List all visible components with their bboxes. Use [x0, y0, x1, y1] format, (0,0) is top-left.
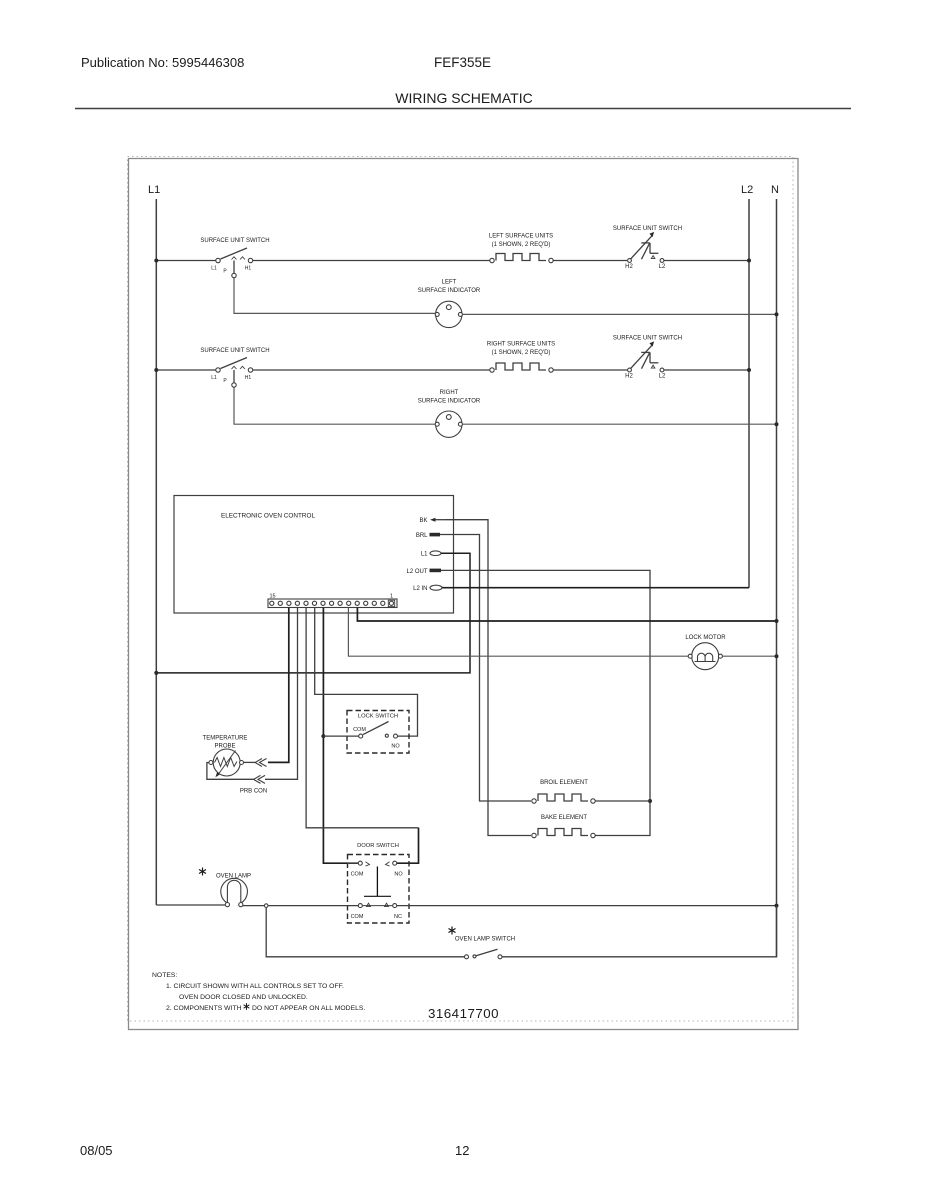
svg-text:DO NOT APPEAR ON ALL MODELS.: DO NOT APPEAR ON ALL MODELS.: [252, 1005, 365, 1012]
svg-text:L1: L1: [211, 375, 217, 381]
drawing frame dotted border: [128, 157, 794, 1022]
svg-text:H1: H1: [245, 266, 252, 272]
svg-text:L2: L2: [741, 184, 753, 196]
wire terminal pin11 to door switch NO: [306, 608, 418, 828]
wire terminal pin6 to lock motor: [348, 608, 688, 657]
svg-text:BRL: BRL: [416, 533, 428, 539]
notes block: [152, 972, 365, 1012]
switch S2 surface unit switch thermal contact row1: [613, 226, 682, 270]
svg-text:BK: BK: [419, 518, 427, 524]
svg-text:RIGHT: RIGHT: [440, 390, 459, 396]
svg-text:BROIL ELEMENT: BROIL ELEMENT: [540, 780, 588, 786]
svg-text:1. CIRCUIT SHOWN WITH ALL CON: 1. CIRCUIT SHOWN WITH ALL CONTROLS SET T…: [166, 983, 344, 990]
svg-text:NC: NC: [394, 914, 402, 920]
wire L2 OUT run to elements: [441, 570, 650, 835]
svg-text:Publication No: 5995446308: Publication No: 5995446308: [81, 55, 244, 70]
wire element to right surface unit switch H2: [553, 260, 627, 262]
header rule line: [75, 108, 851, 110]
wire element to surface unit switch H2 row2: [553, 369, 627, 371]
wire probe left terminal loop to bottom chevron: [207, 763, 254, 780]
svg-text:H2: H2: [625, 374, 633, 380]
wire L1 run from control to L1 rail: [156, 553, 470, 673]
svg-text:OVEN LAMP SWITCH: OVEN LAMP SWITCH: [455, 937, 515, 943]
wire switch P terminal down to left surface indicator: [234, 278, 436, 314]
wire terminal pin9 down to door switch COM: [323, 608, 358, 864]
wire right surface indicator to N rail: [462, 423, 776, 425]
wire switch L2 to L2 rail: [664, 260, 749, 262]
svg-text:L2: L2: [659, 264, 666, 270]
connector PRB top chevrons: [255, 759, 267, 767]
svg-text:P: P: [223, 269, 227, 275]
svg-text:L1: L1: [421, 552, 428, 558]
svg-text:L1: L1: [211, 266, 217, 272]
switch S1 left surface unit switch: [200, 238, 269, 278]
svg-text:PRB CON: PRB CON: [240, 789, 267, 795]
terminal BRL of oven control: [416, 533, 440, 539]
svg-text:NO: NO: [391, 744, 400, 750]
drawing frame solid border: [129, 159, 799, 1030]
svg-text:NO: NO: [394, 872, 403, 878]
svg-text:L2 OUT: L2 OUT: [406, 569, 427, 575]
wire switch H1 to left surface units element: [253, 260, 490, 262]
wire switch H1 to right surface units element: [253, 369, 490, 371]
switch S4 surface unit switch thermal contact row2: [613, 336, 682, 380]
wire L1 rail to oven lamp: [156, 904, 225, 906]
switch S5 lock switch: [323, 711, 409, 754]
terminal L2 IN of oven control: [413, 585, 442, 592]
svg-text:H2: H2: [625, 264, 633, 270]
svg-text:L2: L2: [659, 374, 666, 380]
svg-text:H1: H1: [245, 375, 252, 381]
svg-text:RIGHT SURFACE UNITS: RIGHT SURFACE UNITS: [487, 342, 555, 348]
svg-text:COM: COM: [351, 914, 364, 920]
wire L2 rail: [748, 199, 750, 588]
svg-text:316417700: 316417700: [428, 1006, 499, 1021]
svg-text:SURFACE UNIT SWITCH: SURFACE UNIT SWITCH: [200, 348, 269, 354]
svg-text:SURFACE INDICATOR: SURFACE INDICATOR: [418, 288, 481, 294]
box U1 electronic oven control: [174, 496, 454, 614]
svg-text:WIRING SCHEMATIC: WIRING SCHEMATIC: [395, 90, 532, 106]
resistor broil element: [532, 780, 595, 803]
svg-text:OVEN DOOR CLOSED AND UNLOCKED.: OVEN DOOR CLOSED AND UNLOCKED.: [179, 994, 308, 1001]
wire switch L2 to L2 rail row2: [664, 369, 749, 371]
switch S6 door switch: [348, 843, 410, 923]
terminal L2 OUT of oven control: [406, 569, 441, 575]
wire left surface indicator to N rail: [462, 313, 776, 315]
lamp left surface indicator: [418, 280, 481, 328]
wire L2 IN run to L2 rail: [442, 587, 749, 589]
motor M1 lock motor: [685, 635, 726, 670]
wire junction down to oven lamp switch: [266, 907, 464, 956]
svg-text:COM: COM: [353, 727, 366, 733]
svg-text:L1: L1: [148, 184, 160, 196]
wire chevron to probe right terminal: [244, 761, 255, 763]
svg-text:SURFACE UNIT SWITCH: SURFACE UNIT SWITCH: [613, 336, 682, 342]
svg-text:12: 12: [455, 1143, 469, 1158]
svg-text:LOCK SWITCH: LOCK SWITCH: [358, 714, 398, 720]
svg-text:P: P: [223, 378, 227, 384]
lamp oven lamp: [199, 868, 251, 907]
wire N rail: [776, 199, 778, 957]
resistor left surface units element: [489, 234, 553, 263]
wire terminal pin5 to N rail: [357, 608, 776, 622]
svg-text:LEFT SURFACE UNITS: LEFT SURFACE UNITS: [489, 234, 553, 240]
svg-text:SURFACE UNIT SWITCH: SURFACE UNIT SWITCH: [200, 238, 269, 244]
svg-text:L2 IN: L2 IN: [413, 586, 427, 592]
svg-text:LEFT: LEFT: [442, 280, 457, 286]
wire oven lamp switch to N rail: [502, 906, 777, 957]
svg-text:08/05: 08/05: [80, 1143, 113, 1158]
wire oven lamp to door switch and N rail: [243, 905, 358, 907]
switch S3 right surface unit switch: [200, 348, 269, 387]
svg-text:TEMPERATURE: TEMPERATURE: [203, 736, 248, 742]
lamp right surface indicator: [418, 390, 481, 437]
wire L1 rail: [155, 199, 157, 905]
resistor right surface units element: [487, 342, 555, 373]
connector PRB bottom chevrons: [254, 775, 266, 783]
node open junction at oven lamp branch: [264, 904, 268, 908]
svg-text:SURFACE UNIT SWITCH: SURFACE UNIT SWITCH: [613, 226, 682, 232]
wire switch P terminal down to right surface indicator: [234, 387, 436, 424]
resistor bake element: [532, 815, 595, 838]
wire L1 rail to left surface unit switch: [156, 260, 216, 262]
wire bottom chevron to terminal pin12: [265, 608, 298, 780]
svg-text:NOTES:: NOTES:: [152, 972, 177, 979]
wire L1 rail to right surface unit switch: [156, 369, 216, 371]
svg-text:ELECTRONIC OVEN CONTROL: ELECTRONIC OVEN CONTROL: [221, 513, 316, 520]
svg-text:(1 SHOWN, 2 REQ'D): (1 SHOWN, 2 REQ'D): [492, 350, 551, 356]
wire BRL run to broil element: [440, 535, 531, 802]
svg-text:(1 SHOWN, 2 REQ'D): (1 SHOWN, 2 REQ'D): [492, 242, 551, 248]
resistor RT1 temperature probe: [203, 736, 248, 778]
svg-text:COM: COM: [351, 872, 364, 878]
wire BK run to bake element: [446, 520, 531, 836]
wire terminal pin10 to lock switch NO: [315, 608, 418, 737]
terminal BK of oven control: [419, 518, 446, 525]
terminal L1 of oven control: [421, 551, 441, 558]
svg-text:FEF355E: FEF355E: [434, 55, 491, 70]
svg-text:2. COMPONENTS WITH: 2. COMPONENTS WITH: [166, 1005, 242, 1012]
switch S7 oven lamp switch: [449, 927, 516, 959]
svg-text:BAKE ELEMENT: BAKE ELEMENT: [541, 815, 587, 821]
svg-text:N: N: [771, 184, 779, 196]
terminal strip of oven control: [268, 594, 397, 608]
wire broil element right to L2 OUT run: [595, 800, 650, 802]
svg-text:LOCK MOTOR: LOCK MOTOR: [685, 635, 726, 641]
svg-text:DOOR SWITCH: DOOR SWITCH: [357, 843, 399, 849]
wire terminal pin13 to temperature probe: [268, 608, 289, 763]
svg-text:SURFACE INDICATOR: SURFACE INDICATOR: [418, 399, 481, 405]
wire lock motor to N rail: [722, 655, 776, 657]
